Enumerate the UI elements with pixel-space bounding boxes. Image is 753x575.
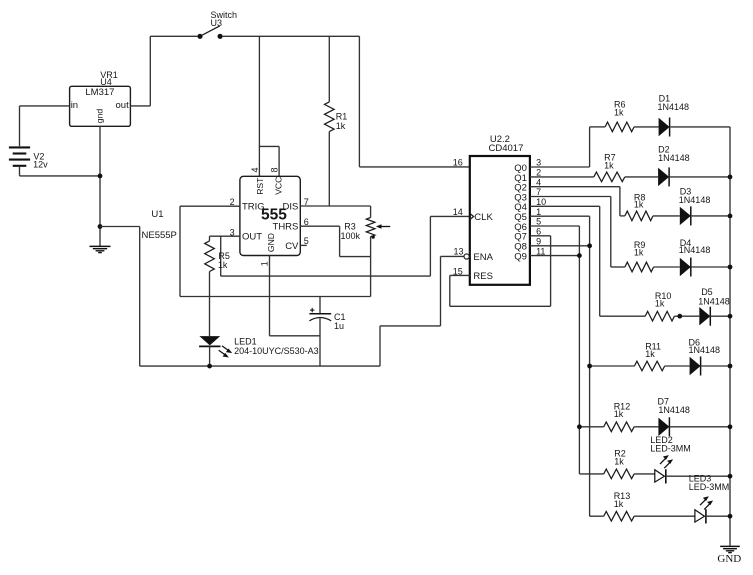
svg-text:9: 9: [536, 237, 541, 247]
svg-text:gnd: gnd: [95, 109, 105, 124]
svg-text:RST: RST: [255, 177, 265, 195]
svg-text:ENA: ENA: [473, 252, 493, 263]
svg-text:OUT: OUT: [242, 231, 262, 242]
svg-text:4: 4: [250, 167, 260, 172]
wire Q5: [530, 215, 590, 217]
svg-text:VCC: VCC: [273, 177, 283, 195]
battery V2: [9, 106, 30, 176]
wire 555 supply from rail: [258, 36, 260, 176]
svg-text:1k: 1k: [645, 349, 655, 359]
junction LED1 cathode rail: [207, 364, 212, 369]
svg-text:1k: 1k: [634, 247, 644, 257]
svg-text:1N4148: 1N4148: [658, 153, 690, 163]
junction D2 rail: [728, 175, 733, 180]
wire Q7: [530, 235, 551, 237]
svg-text:3: 3: [536, 158, 541, 168]
wire Q0: [530, 166, 590, 168]
svg-text:out: out: [116, 100, 130, 111]
potentiometer R3 100k: [341, 206, 391, 297]
svg-text:1u: 1u: [334, 321, 344, 331]
LED3 LED-3MM: [689, 474, 730, 524]
resistor R9 1k: [611, 240, 680, 272]
wire battery minus to gnd node: [20, 175, 101, 177]
svg-text:1N4148: 1N4148: [679, 195, 711, 205]
wire OUT to CLK: [220, 236, 222, 276]
LED2 LED-3MM: [650, 435, 730, 484]
wire TRIG net: [180, 205, 240, 207]
diode D1 1N4148: [658, 93, 731, 136]
ground symbol right: [720, 546, 740, 552]
wire Q4: [530, 205, 600, 207]
svg-text:1k: 1k: [604, 160, 614, 170]
wire THRS: [300, 225, 339, 227]
wire Q2: [530, 186, 620, 188]
diode D4 1N4148: [679, 238, 730, 276]
wire Q1: [530, 176, 594, 178]
svg-text:7: 7: [536, 187, 541, 197]
wire Q8: [530, 245, 590, 247]
wire Q9: [530, 255, 580, 257]
junction D6 rail: [728, 364, 733, 369]
svg-text:1: 1: [259, 261, 269, 266]
resistor R1 1k: [325, 36, 348, 206]
wire RES to Q7: [450, 236, 551, 306]
svg-text:LED-3MM: LED-3MM: [650, 443, 691, 453]
svg-text:5: 5: [536, 217, 541, 227]
diode D6 1N4148: [689, 337, 731, 375]
resistor R6 1k: [590, 100, 659, 132]
wire Q3: [530, 196, 611, 198]
resistor R11 1k: [590, 341, 690, 371]
svg-text:THRS: THRS: [273, 222, 299, 233]
resistor R12 1k: [579, 401, 658, 431]
resistor R8 1k: [620, 192, 680, 220]
resistor R2 1k: [579, 449, 654, 479]
svg-text:1N4148: 1N4148: [658, 405, 690, 415]
top rail wire left of switch: [150, 35, 197, 37]
svg-text:14: 14: [453, 207, 463, 217]
junction R11 Q5Q8 net: [587, 364, 592, 369]
svg-text:CLK: CLK: [474, 212, 493, 223]
svg-text:LED1: LED1: [234, 337, 257, 347]
junction LED3 rail: [728, 514, 733, 519]
svg-text:8: 8: [270, 167, 280, 172]
diode D3 1N4148: [679, 187, 730, 226]
junction D3 rail: [728, 214, 733, 219]
svg-text:204-10UYC/S530-A3: 204-10UYC/S530-A3: [234, 346, 319, 356]
junction gnd branch: [98, 224, 103, 229]
svg-text:1N4148: 1N4148: [689, 345, 721, 355]
svg-text:U3: U3: [211, 18, 223, 28]
resistor R5 1k: [205, 236, 230, 336]
junction Q9 Q6: [577, 253, 582, 258]
label U1 NE555P: [142, 209, 177, 241]
resistor R13 1k: [590, 491, 695, 521]
svg-text:4: 4: [536, 177, 541, 187]
svg-text:R1: R1: [336, 112, 348, 122]
svg-text:GND: GND: [266, 233, 276, 252]
svg-text:NE555P: NE555P: [142, 230, 177, 241]
svg-text:10: 10: [536, 197, 546, 207]
regulator VR1 U4 LM317: [70, 70, 131, 126]
svg-text:1k: 1k: [218, 260, 228, 270]
diode D5 1N4148: [698, 287, 730, 326]
wire gnd node to bottom rail: [100, 226, 140, 228]
svg-text:1k: 1k: [336, 121, 346, 131]
svg-text:5: 5: [304, 236, 309, 246]
junction LED2 rail: [728, 474, 733, 479]
diode D7 1N4148: [658, 397, 731, 437]
svg-text:6: 6: [536, 227, 541, 237]
ground symbol left: [90, 246, 111, 252]
junction D5 rail: [728, 314, 733, 319]
wire LM317 out: [130, 105, 150, 107]
svg-text:6: 6: [304, 217, 309, 227]
wire 555 pin1 gnd: [269, 256, 271, 336]
wire DIS: [300, 205, 370, 207]
svg-text:RES: RES: [473, 271, 493, 282]
svg-text:16: 16: [453, 158, 463, 168]
wire LM317 in: [20, 105, 70, 107]
diode D2 1N4148: [658, 144, 730, 186]
svg-text:1k: 1k: [614, 108, 624, 118]
svg-text:1N4148: 1N4148: [698, 297, 730, 307]
svg-text:GND: GND: [717, 553, 741, 565]
junction battery gnd: [98, 174, 103, 179]
counter U2.2 CD4017: [464, 134, 530, 285]
timer U1 555: [240, 176, 300, 255]
pin 5 stub CV: [300, 244, 307, 246]
label V2 12v: [33, 152, 48, 170]
svg-text:12v: 12v: [33, 160, 48, 170]
resistor R7 1k: [594, 153, 658, 182]
top rail wire right of switch: [223, 35, 360, 37]
svg-text:CV: CV: [285, 241, 299, 252]
svg-text:U1: U1: [151, 209, 163, 220]
bottom gnd rail: [140, 365, 380, 367]
svg-text:1: 1: [536, 207, 541, 217]
svg-text:Q9: Q9: [514, 252, 527, 263]
svg-text:1N4148: 1N4148: [679, 245, 711, 255]
svg-text:LED-3MM: LED-3MM: [689, 482, 730, 492]
svg-text:11: 11: [536, 246, 545, 256]
wire VCC net to CD4017 pin16: [358, 36, 360, 167]
junction D7 rail: [728, 424, 733, 429]
svg-text:1N4148: 1N4148: [658, 102, 690, 112]
svg-text:R3: R3: [344, 222, 356, 232]
svg-text:2: 2: [536, 168, 541, 178]
svg-text:1k: 1k: [655, 299, 665, 309]
wire ENA to gnd rail: [379, 326, 381, 366]
svg-text:13: 13: [454, 246, 464, 256]
svg-text:U4: U4: [100, 77, 112, 87]
junction D4 rail: [728, 265, 733, 270]
svg-text:1k: 1k: [634, 200, 644, 210]
junction R12 Q6Q9 net: [577, 424, 582, 429]
svg-text:1k: 1k: [614, 409, 624, 419]
junction R10 D5: [677, 314, 682, 319]
LED1 204-10UYC/S530-A3: [199, 336, 319, 366]
right cathode rail: [729, 127, 731, 546]
svg-text:1k: 1k: [614, 456, 624, 466]
capacitor C1 1u: [309, 297, 345, 367]
svg-text:100k: 100k: [341, 231, 361, 241]
wire Q6: [530, 225, 580, 227]
svg-text:CD4017: CD4017: [489, 143, 524, 154]
wire LM317 gnd down: [99, 126, 101, 246]
resistor R10 1k: [600, 291, 700, 321]
svg-text:in: in: [71, 100, 78, 111]
switch U3: [197, 10, 237, 39]
junction Q8 Q5: [587, 243, 592, 248]
svg-text:LM317: LM317: [85, 87, 114, 98]
svg-text:1k: 1k: [614, 499, 624, 509]
wire OUT: [210, 235, 240, 237]
